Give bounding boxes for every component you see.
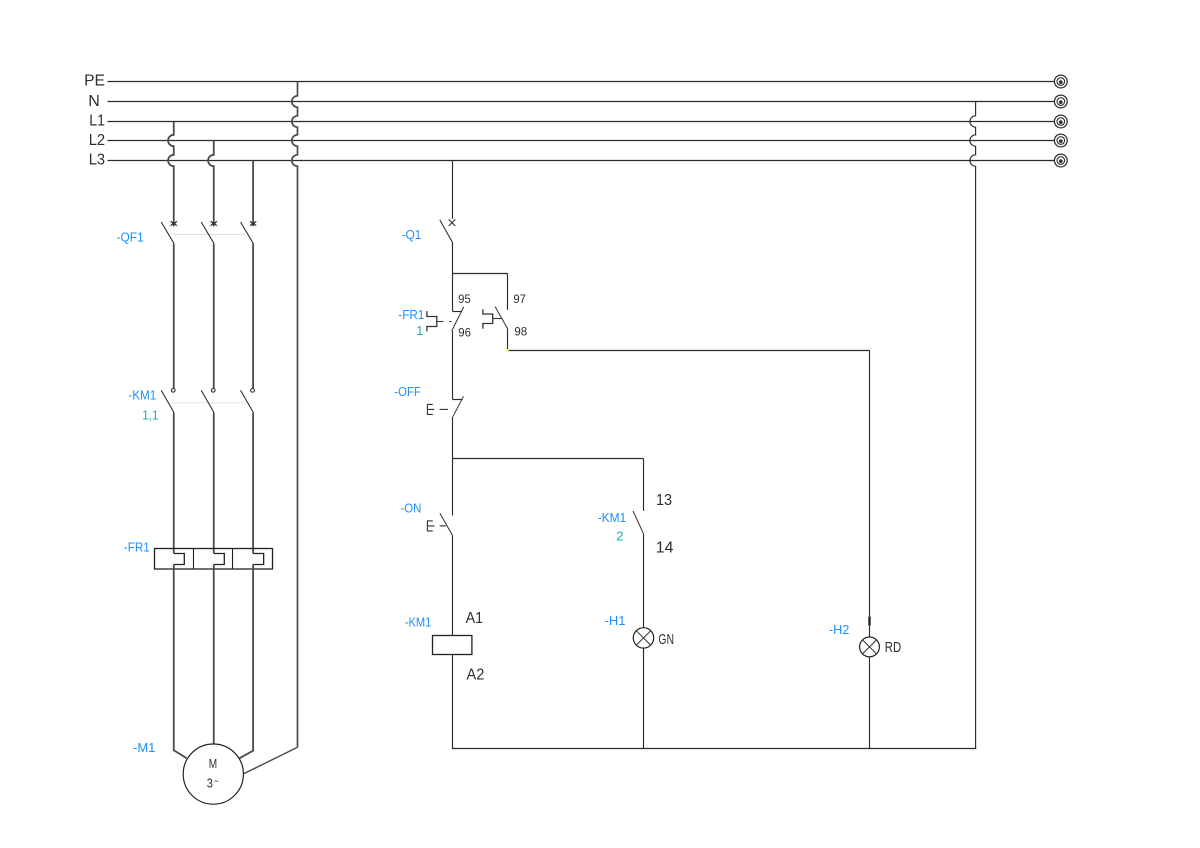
wire branch to 97 [507, 274, 509, 310]
svg-text:96: 96 [458, 325, 471, 339]
wire coil to rail [452, 655, 454, 749]
contactor KM1 pole 3 [241, 388, 255, 553]
overload FR1 box [155, 549, 273, 570]
svg-text:L1: L1 [89, 112, 105, 129]
wire 98 to H2 vertical [869, 351, 871, 638]
svg-text:-FR1: -FR1 [398, 307, 424, 322]
wire FR1 to motor phase 3 [240, 564, 254, 758]
terminal L3 [1054, 154, 1067, 167]
button OFF linkage dash [440, 408, 448, 410]
wire node B branch to KM1 aux [453, 458, 644, 460]
switch Q1 contact cross [449, 219, 456, 226]
wire H2 to rail [869, 657, 871, 749]
svg-text:L2: L2 [89, 132, 105, 149]
breaker QF1 linkage [172, 233, 246, 235]
wire N bus [108, 101, 1055, 103]
lamp H1 cross [636, 631, 650, 645]
svg-text:1,1: 1,1 [142, 408, 158, 423]
wire node A branch to 97 [453, 273, 508, 275]
lamp H2 circle [860, 637, 880, 657]
svg-text:-H1: -H1 [605, 613, 626, 628]
contactor KM1 linkage [172, 402, 246, 404]
switch Q1 blade [440, 220, 453, 243]
svg-text:-FR1: -FR1 [124, 540, 150, 555]
svg-text:-QF1: -QF1 [117, 229, 144, 244]
overload contact 97-98 trip link [493, 318, 502, 320]
wire OFF to node B [452, 418, 454, 459]
junction yellow mark [507, 349, 509, 351]
svg-text:A1: A1 [466, 610, 484, 627]
coil KM1 rect [433, 636, 472, 655]
svg-text:98: 98 [514, 325, 527, 339]
overload FR1 heater 3 [253, 554, 264, 565]
svg-text:-KM1: -KM1 [598, 510, 627, 525]
svg-text:14: 14 [656, 539, 674, 556]
wire L3 bus [108, 160, 1055, 162]
wire L2 drop with hop over L3 [208, 141, 214, 222]
wire node A to FR1 aux 95 [452, 274, 454, 312]
wire branch to 13 [643, 459, 645, 511]
lamp H1 circle [633, 628, 653, 648]
svg-text:2: 2 [616, 529, 623, 544]
overload contact FR1 trip dashes [437, 321, 452, 323]
overload contact FR1 NC blade [452, 307, 464, 331]
button OFF actuator E [427, 404, 434, 414]
svg-text:RD: RD [885, 640, 901, 656]
wire H1 to rail [643, 648, 645, 748]
overload contact 97-98 trip bracket [483, 309, 493, 329]
svg-text:3: 3 [207, 775, 213, 790]
contactor KM1 pole 2 [201, 388, 215, 553]
svg-text:M: M [209, 756, 217, 771]
lamp H2 cross [863, 640, 877, 654]
svg-text:-KM1: -KM1 [405, 615, 432, 630]
terminal PE [1054, 75, 1067, 88]
wire FR1 to motor phase 1 [174, 564, 187, 758]
button ON NO blade [440, 513, 453, 536]
overload contact FR1 97-98 blade [495, 307, 508, 329]
svg-text:95: 95 [458, 292, 471, 306]
svg-text:13: 13 [656, 492, 672, 509]
svg-text:N: N [88, 93, 100, 110]
button ON actuator E [427, 521, 434, 531]
svg-text:-KM1: -KM1 [128, 387, 156, 402]
svg-text:-ON: -ON [401, 501, 422, 516]
wire 96 to OFF [452, 331, 454, 400]
wire bottom rail [452, 748, 976, 750]
wire PE to motor [243, 747, 297, 774]
svg-text:~: ~ [214, 776, 219, 788]
wire Q1 to node A [452, 243, 454, 274]
overload FR1 divider 1 [193, 549, 195, 570]
wire L1 bus [108, 121, 1055, 123]
svg-text:-M1: -M1 [133, 740, 155, 755]
svg-text:PE: PE [84, 72, 105, 89]
breaker QF1 pole 1 [161, 221, 177, 388]
wire ON to coil [452, 536, 454, 636]
wire 98 corner [508, 329, 870, 351]
button ON linkage dash [440, 525, 446, 527]
wire L2 bus [108, 140, 1055, 142]
wire PE bus [108, 81, 1055, 83]
wire FR1 to motor phase 2 [213, 564, 215, 744]
wire H2 thick tick [868, 617, 870, 626]
wire PE drop with hops over N L1 L2 L3 [292, 82, 298, 748]
overload contact FR1 trip bracket [427, 311, 437, 331]
svg-text:-H2: -H2 [829, 622, 850, 637]
svg-text:97: 97 [513, 292, 526, 306]
wire 14 to H1 [643, 534, 645, 628]
button OFF NC seat [453, 399, 463, 401]
wire L1 drop with hops over L2 L3 [168, 122, 174, 222]
svg-text:GN: GN [658, 632, 674, 648]
breaker QF1 pole 2 [201, 221, 217, 388]
svg-text:A2: A2 [467, 666, 485, 683]
overload FR1 heater 2 [214, 554, 225, 565]
overload contact FR1 NC seat [453, 311, 463, 313]
svg-text:-OFF: -OFF [394, 384, 420, 399]
wire L3 to Q1 [452, 161, 454, 219]
contactor KM1 pole 1 [161, 388, 175, 553]
contact KM1 aux NO blade [633, 511, 644, 534]
wire N drop with hops over L1 L2 L3 [970, 102, 976, 749]
svg-text:-Q1: -Q1 [402, 227, 422, 242]
terminal N [1054, 95, 1067, 108]
breaker QF1 pole 3 [241, 221, 257, 388]
motor M1 circle [183, 744, 243, 804]
svg-text:1: 1 [416, 323, 423, 338]
svg-text:L3: L3 [89, 151, 105, 168]
terminal L1 [1054, 115, 1067, 128]
wire node B to ON [452, 459, 454, 516]
terminal L2 [1054, 134, 1067, 147]
wire L3 drop [252, 161, 254, 222]
overload FR1 heater 1 [174, 554, 185, 565]
button OFF NC blade [452, 396, 463, 418]
overload FR1 divider 2 [232, 549, 234, 570]
